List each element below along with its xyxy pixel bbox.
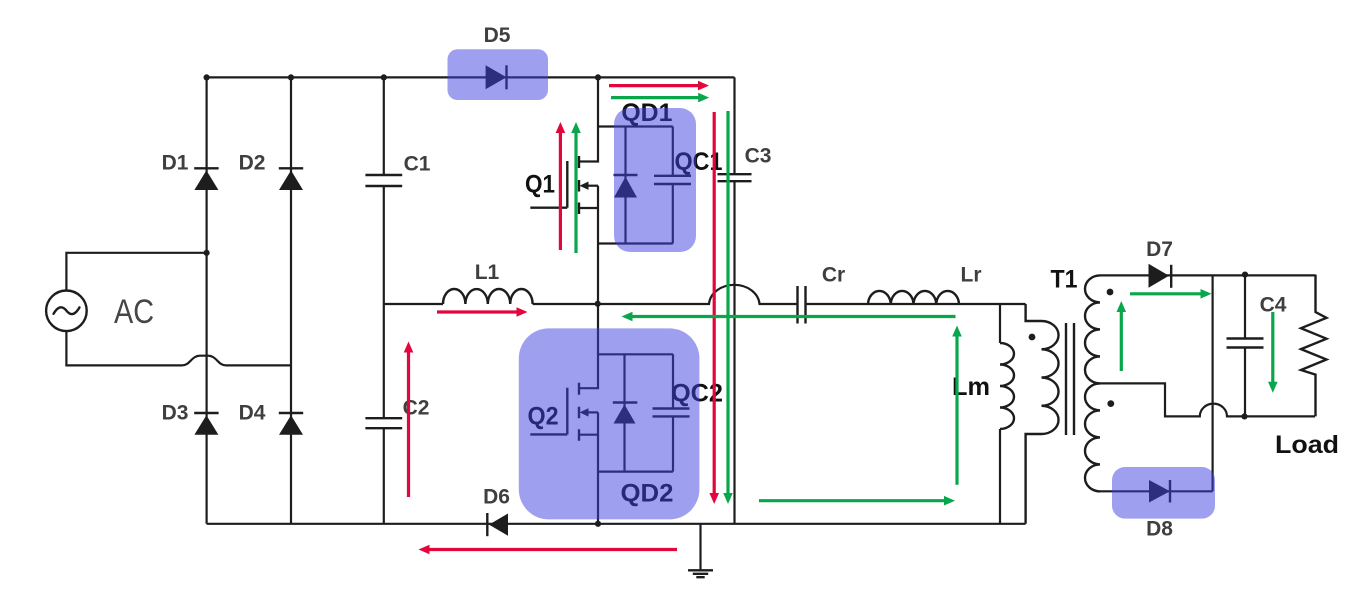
diode D7 xyxy=(1149,264,1172,288)
wire Lm branch xyxy=(999,304,1001,524)
svg-text:T1: T1 xyxy=(1051,266,1078,294)
diode QD2 xyxy=(613,403,638,424)
wire D2 D4 vertical xyxy=(290,77,292,523)
wire AC bottom with hop xyxy=(66,331,291,365)
diode D5 xyxy=(486,65,507,89)
arrow red top right xyxy=(609,81,709,91)
highlight D8 xyxy=(1112,467,1215,519)
svg-text:D1: D1 xyxy=(162,152,189,175)
wire QD2 QC2 loop xyxy=(598,354,673,471)
capacitor QC1 xyxy=(654,176,691,184)
inductor Lm xyxy=(1000,343,1014,429)
capacitor C1 xyxy=(365,175,402,186)
svg-text:Q1: Q1 xyxy=(525,171,555,199)
svg-text:D2: D2 xyxy=(239,152,266,175)
svg-text:C1: C1 xyxy=(404,153,431,176)
arrow green C4 down xyxy=(1268,312,1278,393)
node top rail C1 xyxy=(381,74,387,80)
transistor Q2 xyxy=(530,383,598,441)
resistor Load xyxy=(1301,275,1327,417)
wire C1 C2 vertical xyxy=(383,77,385,523)
wire output top xyxy=(1100,274,1316,276)
svg-text:D3: D3 xyxy=(162,402,189,425)
arrow green secondary up xyxy=(1117,301,1127,371)
node AC top xyxy=(204,250,210,256)
diode D6 xyxy=(487,513,508,536)
ground xyxy=(688,524,713,577)
capacitor QC2 xyxy=(653,409,690,417)
arrow red Q1 up xyxy=(556,122,566,250)
arrow green Lm up xyxy=(952,326,962,485)
node T1 secondary upper dot xyxy=(1107,289,1114,296)
ARROWS xyxy=(404,81,719,555)
node T1 primary dot xyxy=(1029,334,1036,341)
transformer T1 primary xyxy=(1026,304,1059,524)
inductor L1 xyxy=(443,289,533,304)
wire D1 D3 vertical xyxy=(206,77,208,523)
node C4 bottom xyxy=(1241,413,1247,419)
wire QD1 QC1 loop xyxy=(598,127,673,244)
arrow green mid left xyxy=(622,312,956,322)
arrow red C2 up xyxy=(404,342,414,498)
svg-text:Load: Load xyxy=(1275,431,1339,459)
highlight Q2 xyxy=(519,328,700,519)
svg-text:L1: L1 xyxy=(475,261,500,284)
wire bottom rail xyxy=(207,523,1026,525)
node T1 secondary lower dot xyxy=(1107,400,1114,407)
arrow green secondary right xyxy=(1130,289,1212,299)
capacitor C2 xyxy=(365,418,402,428)
AC source xyxy=(46,291,87,332)
svg-text:Cr: Cr xyxy=(822,264,845,287)
wire Q1 source rail xyxy=(579,186,598,389)
wire D8 horizontal xyxy=(1100,490,1213,492)
highlight D5 xyxy=(448,49,549,100)
arrow red L1 right xyxy=(437,307,528,317)
diode D4 xyxy=(279,413,303,435)
diode D2 xyxy=(279,168,303,190)
arrow green Q1 up xyxy=(571,122,581,253)
arrow red C3 down xyxy=(709,112,719,504)
svg-text:D4: D4 xyxy=(239,402,266,425)
capacitor C4 xyxy=(1227,339,1264,348)
arrow green bottom right xyxy=(759,496,955,506)
capacitor Cr xyxy=(798,286,806,324)
arrow red bottom left xyxy=(419,545,678,555)
wire AC top xyxy=(66,253,206,291)
node top rail D1 xyxy=(204,74,210,80)
wire Q2 source rail xyxy=(597,412,599,523)
diode D1 xyxy=(194,168,218,190)
arrow green C3 down xyxy=(723,111,733,504)
diode D8 xyxy=(1149,480,1170,503)
wire mid with L1 and hop xyxy=(384,285,1026,304)
wire Q branch drain Q1 xyxy=(579,77,598,161)
svg-text:D8: D8 xyxy=(1146,518,1173,541)
transformer T1 secondary upper xyxy=(1085,275,1100,383)
transistor Q1 xyxy=(530,156,598,214)
transformer T1 core xyxy=(1066,323,1074,435)
svg-text:D7: D7 xyxy=(1146,238,1173,261)
svg-text:D6: D6 xyxy=(483,486,510,509)
svg-text:C3: C3 xyxy=(745,145,772,168)
arrow green top right xyxy=(611,93,709,103)
node C4 top xyxy=(1242,272,1248,278)
wire C3 branch lower xyxy=(733,182,735,524)
wire center tap with hop xyxy=(1100,383,1315,416)
svg-text:D5: D5 xyxy=(484,24,511,47)
transformer T1 secondary lower xyxy=(1085,383,1100,491)
node top rail Q1 xyxy=(595,74,601,80)
wire D8 vertical xyxy=(1211,275,1213,491)
wire C4 branch xyxy=(1244,275,1246,417)
svg-text:AC: AC xyxy=(114,293,154,331)
svg-text:Lr: Lr xyxy=(961,264,982,287)
wire top rail xyxy=(207,76,735,78)
inductor Lr xyxy=(868,291,959,304)
highlight QD1 QC1 xyxy=(614,108,696,252)
svg-text:C2: C2 xyxy=(403,397,430,420)
capacitor C3 xyxy=(718,174,752,181)
node top rail D2 xyxy=(288,74,294,80)
diode D3 xyxy=(194,413,218,435)
node bottom rail Q2 xyxy=(595,521,601,527)
diode QD1 xyxy=(614,175,638,198)
wire C3 branch upper xyxy=(733,77,735,173)
node half bridge mid xyxy=(595,301,601,307)
